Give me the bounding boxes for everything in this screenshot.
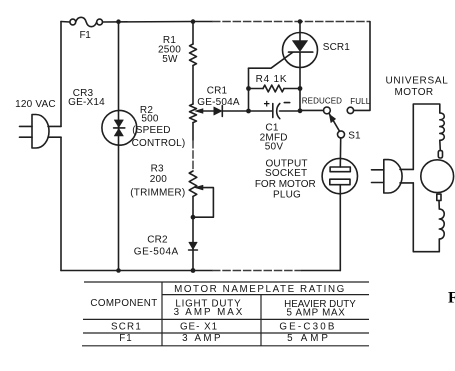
switch S1 pole <box>338 131 345 138</box>
wire R4 left lead <box>249 88 264 90</box>
label R2 500 (SPEED CONTROL) <box>132 105 186 149</box>
motor plug <box>372 160 414 193</box>
potentiometer R3 (trimmer) <box>189 171 197 196</box>
diode CR1 (GE-504A) <box>214 106 223 117</box>
wire R4 right lead <box>284 89 300 112</box>
brush top <box>438 151 442 159</box>
wire motor field bottom <box>413 183 439 252</box>
svg-text:F1: F1 <box>80 30 92 41</box>
svg-text:PLUG: PLUG <box>273 190 301 201</box>
R3 wiper arrow <box>195 185 203 190</box>
switch S1 REDUCED contact <box>324 107 331 114</box>
svg-text:500: 500 <box>141 114 159 125</box>
node junction top CR3 column <box>116 19 121 24</box>
resistor R4 1K <box>263 85 284 92</box>
wire R1 column top <box>192 22 194 45</box>
wire right rail <box>354 22 370 111</box>
svg-text:COMPONENT: COMPONENT <box>90 298 157 309</box>
label OUTPUT SOCKET FOR MOTOR PLUG <box>255 158 316 200</box>
wire C1 to REDUCED contact <box>280 109 324 112</box>
SCR1 gate lead <box>249 52 293 68</box>
120 VAC line plug <box>20 115 62 149</box>
svg-text:REDUCED: REDUCED <box>302 96 342 105</box>
node junction R1 column bottom rail <box>191 268 196 273</box>
inductor field coil bottom <box>439 209 444 239</box>
svg-text:F1: F1 <box>119 333 132 344</box>
thyristor SCR1 <box>283 22 318 89</box>
node junction R4 right <box>298 86 303 91</box>
svg-text:UNIVERSAL: UNIVERSAL <box>386 76 449 87</box>
wire left rail lower <box>60 137 62 270</box>
capacitor C1 2MFD 50V <box>273 104 280 119</box>
svg-text:5 AMP: 5 AMP <box>287 333 331 344</box>
label UNIVERSAL MOTOR <box>386 76 449 98</box>
label - polarity <box>284 102 289 104</box>
wire between R2 and R3 faint section <box>192 140 194 171</box>
svg-text:+: + <box>263 98 270 110</box>
svg-text:MOTOR: MOTOR <box>394 87 433 98</box>
output socket <box>322 158 357 193</box>
wire socket bottom to rail <box>339 185 341 271</box>
svg-text:5W: 5W <box>162 54 178 65</box>
inductor field coil top <box>440 113 445 140</box>
node junction gate column / mid wire <box>246 109 251 114</box>
svg-text:SOCKET: SOCKET <box>265 168 307 179</box>
svg-text:120 VAC: 120 VAC <box>15 99 56 110</box>
wire motor field top <box>413 104 440 169</box>
brush bottom <box>437 194 441 200</box>
svg-text:GE-C30B: GE-C30B <box>279 322 336 333</box>
svg-text:F: F <box>448 290 455 307</box>
diode CR3 (GE-X14 trigger diode) <box>102 110 137 145</box>
svg-text:R4 1K: R4 1K <box>256 74 288 85</box>
svg-text:CR1: CR1 <box>207 86 228 97</box>
svg-text:S1: S1 <box>348 130 361 141</box>
wire top rail <box>103 21 213 24</box>
switch S1 FULL contact <box>347 107 353 113</box>
svg-text:GE-504A: GE-504A <box>134 246 179 257</box>
wire bottom rail <box>61 270 212 272</box>
wire top rail left segment to fuse <box>61 21 70 24</box>
R2 wiper arrow to CR1 <box>195 109 214 114</box>
potentiometer R2 (speed control) <box>190 104 197 123</box>
wire coil to top brush <box>439 140 442 150</box>
node junction R4 left <box>246 86 251 91</box>
svg-text:R3: R3 <box>151 163 164 174</box>
wire left rail upper <box>60 22 62 127</box>
wire S1 to socket <box>339 138 341 167</box>
table rules <box>82 282 369 346</box>
svg-text:(TRIMMER): (TRIMMER) <box>130 187 185 198</box>
wire CR3 column <box>118 22 120 271</box>
wire between R1 and R2 <box>192 66 194 105</box>
wire bottom brush to coil <box>438 201 440 210</box>
wire R3 wiper short loop <box>193 188 213 218</box>
wire CR1 to C1 node <box>222 110 272 112</box>
wire R3 to CR2 <box>192 196 194 270</box>
wire between R2 and R3 <box>192 123 194 140</box>
motor armature <box>421 160 454 193</box>
svg-text:GE-504A: GE-504A <box>197 97 240 108</box>
fuse F1 <box>70 17 103 26</box>
table cell LIGHT DUTY 3 AMP MAX <box>174 299 245 318</box>
wire bottom rail faint section <box>212 270 302 272</box>
svg-text:SCR1: SCR1 <box>323 42 350 53</box>
svg-text:FULL: FULL <box>350 97 370 106</box>
svg-text:5 AMP MAX: 5 AMP MAX <box>287 307 346 318</box>
svg-text:MOTOR NAMEPLATE RATING: MOTOR NAMEPLATE RATING <box>174 284 346 295</box>
svg-text:3 AMP MAX: 3 AMP MAX <box>174 307 245 318</box>
svg-text:SCR1: SCR1 <box>111 322 142 333</box>
node junction SCR cathode / mid wire <box>298 108 303 113</box>
resistor R1 <box>190 44 197 65</box>
svg-text:3 AMP: 3 AMP <box>182 333 223 344</box>
wire gate column <box>248 68 250 111</box>
node junction R3 loop <box>191 215 196 220</box>
svg-text:CR2: CR2 <box>147 235 168 246</box>
wire top rail faint section <box>212 21 370 23</box>
svg-text:GE-X14: GE-X14 <box>68 97 105 108</box>
svg-text:(SPEED: (SPEED <box>132 125 170 136</box>
svg-text:GE- X1: GE- X1 <box>180 322 218 333</box>
node junction CR3 bottom rail <box>116 268 121 273</box>
svg-text:50V: 50V <box>265 141 284 152</box>
node junction top SCR anode <box>298 19 303 24</box>
svg-text:FOR MOTOR: FOR MOTOR <box>255 179 316 190</box>
switch S1 arm with arrow <box>329 114 339 132</box>
diode CR2 (GE-504A) <box>189 242 198 250</box>
label R1 2500 5W <box>158 35 181 65</box>
table cell HEAVIER DUTY 5 AMP MAX <box>284 299 356 318</box>
svg-text:200: 200 <box>150 174 168 185</box>
wire bottom rail right section <box>302 270 340 272</box>
label R3 200 (TRIMMER) <box>130 163 185 198</box>
node junction top R1 column <box>191 19 196 24</box>
svg-text:CONTROL): CONTROL) <box>132 138 186 149</box>
